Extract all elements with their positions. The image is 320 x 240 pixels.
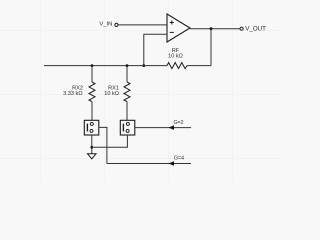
svg-text:G=2: G=2 — [174, 120, 184, 126]
resistor RF — [167, 63, 187, 69]
junction output node — [210, 27, 213, 30]
switch SW1 (gain 2) — [120, 120, 135, 135]
wire SW2 control — [99, 127, 107, 163]
wire ground node to SW1 bottom — [92, 135, 128, 147]
wire SW2 bottom to ground node — [91, 135, 93, 154]
junction RX2 top — [91, 64, 94, 67]
wire RX1 bottom lead — [126, 102, 128, 121]
svg-text:V_IN: V_IN — [99, 22, 112, 28]
switch SW2 (gain 4) — [84, 120, 99, 135]
wire output down to RF — [210, 29, 212, 66]
junction RX1 top — [126, 64, 129, 67]
junction feedback node — [142, 64, 145, 67]
wire G=4 control line with arrow — [107, 163, 191, 165]
svg-text:V_OUT: V_OUT — [245, 25, 266, 32]
junction ground node — [90, 146, 93, 149]
arrow G=4 — [169, 161, 175, 166]
svg-text:G=4: G=4 — [174, 155, 184, 161]
ground — [88, 154, 97, 159]
terminal V_OUT — [240, 27, 243, 30]
resistor RX1 — [124, 82, 130, 102]
wire RX1 top lead — [126, 66, 128, 82]
wire op-amp - input feedback — [144, 34, 167, 65]
wire G=2 control line with arrow — [135, 127, 191, 129]
grid faint lines — [0, 0, 280, 180]
wire V_IN to op-amp + input — [118, 24, 167, 26]
terminal V_IN — [115, 23, 118, 26]
resistor RX2 — [89, 82, 95, 102]
wire RX2 bottom lead — [91, 102, 93, 121]
svg-text:10 kΩ: 10 kΩ — [168, 53, 183, 59]
arrow G=2 — [169, 125, 175, 130]
svg-text:10 kΩ: 10 kΩ — [104, 91, 119, 97]
wire RX2 top lead — [91, 66, 93, 82]
svg-text:3.33 kΩ: 3.33 kΩ — [63, 91, 82, 97]
wire RF right lead — [187, 65, 211, 67]
wire summing bus — [44, 65, 167, 67]
wire op-amp output to V_OUT — [190, 28, 240, 30]
op-amp U1 — [167, 14, 190, 42]
